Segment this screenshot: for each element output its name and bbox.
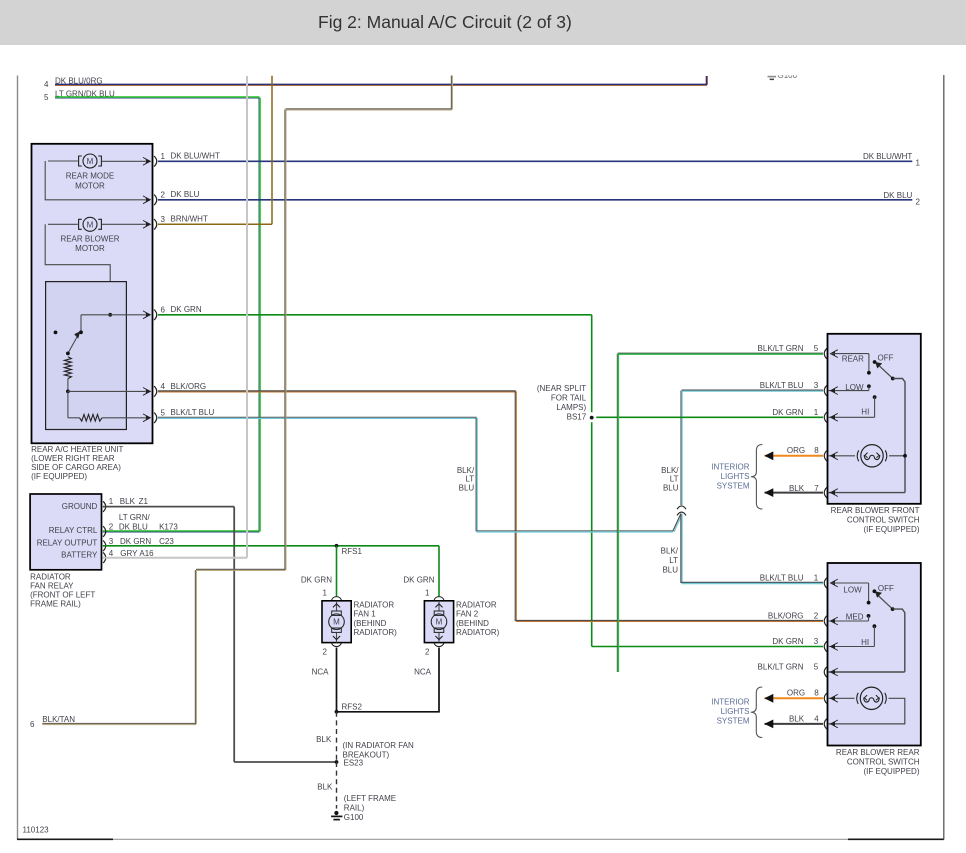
svg-text:8: 8 — [814, 689, 819, 698]
wire ORG rear pin 8 — [764, 694, 823, 703]
node 4 label DK BLU/ORG — [44, 77, 103, 90]
svg-text:K173: K173 — [159, 523, 178, 532]
svg-text:6: 6 — [30, 720, 35, 729]
svg-text:A16: A16 — [139, 549, 154, 558]
svg-text:CONTROL SWITCH: CONTROL SWITCH — [847, 757, 920, 766]
svg-text:BLK/LT GRN: BLK/LT GRN — [758, 663, 804, 672]
svg-text:Z1: Z1 — [139, 497, 149, 506]
svg-text:REAR A/C HEATER UNIT: REAR A/C HEATER UNIT — [31, 445, 123, 454]
svg-text:BLU: BLU — [663, 483, 679, 492]
svg-text:DK BLU: DK BLU — [171, 190, 200, 199]
svg-text:MOTOR: MOTOR — [75, 244, 105, 253]
switch blade with arrow — [66, 331, 80, 355]
svg-text:3: 3 — [814, 381, 819, 390]
rear blower rear control switch box — [828, 563, 921, 746]
label NCA fan 2 — [414, 668, 432, 677]
svg-text:RADIATOR: RADIATOR — [30, 573, 71, 582]
node BS17 — [590, 416, 594, 420]
svg-text:(NEAR SPLIT: (NEAR SPLIT — [537, 384, 586, 393]
svg-text:MED: MED — [846, 612, 864, 621]
wire resistor common to pin 6 — [81, 311, 151, 319]
wire node down to resistor R2 — [67, 391, 69, 417]
drawing number 110123 — [23, 826, 50, 835]
svg-text:LT: LT — [465, 474, 474, 483]
heater pin 6 connector — [154, 305, 202, 320]
svg-text:REAR BLOWER REAR: REAR BLOWER REAR — [836, 748, 920, 757]
svg-text:BLK: BLK — [120, 497, 136, 506]
svg-text:BLK: BLK — [316, 735, 332, 744]
svg-text:DK GRN: DK GRN — [120, 537, 151, 546]
svg-text:2: 2 — [425, 648, 430, 657]
svg-text:(BEHIND: (BEHIND — [456, 619, 489, 628]
radiator fan relay label — [30, 573, 95, 609]
svg-text:SIDE OF CARGO AREA): SIDE OF CARGO AREA) — [31, 463, 121, 472]
wire DK GRN pin 6 to BS17 drop — [158, 315, 592, 647]
rear switch pin 1 connector — [824, 578, 838, 589]
rear switch OFF contact — [873, 584, 895, 593]
border frame right edge — [943, 75, 945, 840]
label in radiator fan breakout — [343, 741, 414, 759]
svg-text:2: 2 — [814, 612, 819, 621]
relay pin 4 connector — [103, 549, 154, 563]
svg-text:ES23: ES23 — [344, 758, 364, 767]
svg-text:BLK/LT BLU: BLK/LT BLU — [760, 574, 804, 583]
svg-text:FOR TAIL: FOR TAIL — [551, 393, 587, 402]
wire DK GRN BS17 to front switch pin 1 — [596, 416, 823, 418]
label NCA fan 1 — [312, 668, 330, 677]
border frame bottom edge — [17, 838, 944, 840]
title bar — [0, 0, 966, 45]
svg-text:DK GRN: DK GRN — [301, 575, 332, 584]
svg-text:2: 2 — [161, 191, 166, 200]
heater pin 2 connector — [154, 190, 200, 205]
front switch pin 5 wire BLK/LT GRN — [617, 353, 823, 672]
svg-text:FRAME RAIL): FRAME RAIL) — [30, 600, 81, 609]
junction node blower feed — [108, 313, 112, 317]
relay pin 2 connector — [103, 513, 178, 537]
front switch OFF contact — [873, 353, 894, 364]
svg-text:REAR MODE: REAR MODE — [66, 172, 114, 181]
svg-text:M: M — [87, 157, 94, 166]
label BS17 near split for tail lamps — [537, 384, 587, 422]
svg-text:1: 1 — [425, 588, 430, 597]
front switch blade — [875, 362, 895, 381]
svg-text:6: 6 — [161, 306, 166, 315]
radiator fan 1 motor — [322, 601, 351, 643]
interior lights system label front — [711, 463, 750, 491]
front switch pin 5 connector — [824, 348, 838, 359]
svg-text:REAR: REAR — [842, 354, 864, 363]
front switch lamp — [828, 445, 907, 467]
svg-text:RELAY OUTPUT: RELAY OUTPUT — [37, 539, 98, 548]
svg-text:4: 4 — [814, 715, 819, 724]
svg-text:BLU: BLU — [459, 483, 475, 492]
svg-text:BLK/TAN: BLK/TAN — [42, 715, 75, 724]
svg-text:FAN RELAY: FAN RELAY — [30, 582, 74, 591]
wire BLK/TAN row 6 to top edge — [42, 76, 452, 725]
svg-text:4: 4 — [161, 382, 166, 391]
svg-text:C23: C23 — [159, 537, 174, 546]
heater pin 1 connector — [154, 152, 220, 167]
svg-text:5: 5 — [814, 344, 819, 353]
rear switch pin 5 label — [758, 663, 819, 672]
label BLK/LT BLU upper at splice — [661, 466, 679, 493]
node RFS2 — [335, 702, 363, 713]
radiator fan 2 pin 2 — [425, 643, 444, 657]
interior lights system brace rear — [751, 687, 763, 738]
wire BLK dashed ES23 to ground — [336, 762, 338, 809]
front switch HI contact — [828, 395, 876, 417]
rear switch pin 2 label — [768, 612, 819, 621]
svg-text:1: 1 — [161, 152, 166, 161]
svg-text:INTERIOR: INTERIOR — [711, 698, 749, 707]
radiator fan 2 label — [456, 600, 500, 637]
front switch pin 5 label — [758, 344, 819, 353]
rear blower front control switch box — [828, 334, 921, 504]
relay pin 3 connector — [103, 537, 174, 551]
node 5 label LT GRN/DK BLU — [44, 89, 115, 102]
wire BLK/LT BLU splice up to front switch pin 3 — [681, 390, 823, 505]
svg-text:BS17: BS17 — [567, 413, 587, 422]
border frame left edge — [17, 76, 19, 840]
radiator fan 2 pin 1 — [425, 588, 444, 600]
svg-text:(LOWER RIGHT REAR: (LOWER RIGHT REAR — [31, 454, 115, 463]
radiator fan 1 pin 2 — [323, 643, 342, 657]
svg-text:RADIATOR: RADIATOR — [354, 600, 395, 609]
rear A/C heater unit label — [31, 445, 123, 481]
svg-text:M: M — [87, 220, 94, 229]
node ES23 — [335, 758, 364, 767]
svg-text:LAMPS): LAMPS) — [556, 403, 586, 412]
rear switch pin 3 label — [772, 637, 818, 646]
svg-text:HI: HI — [861, 407, 869, 416]
svg-text:INTERIOR: INTERIOR — [711, 463, 749, 472]
svg-text:DK GRN: DK GRN — [772, 637, 803, 646]
svg-text:OFF: OFF — [878, 584, 894, 593]
svg-text:RELAY CTRL: RELAY CTRL — [49, 526, 98, 535]
svg-text:BLK/LT GRN: BLK/LT GRN — [758, 344, 804, 353]
svg-text:1: 1 — [109, 497, 114, 506]
heater pin 4 connector — [154, 382, 206, 397]
interior lights system brace front — [751, 445, 763, 510]
svg-text:DK GRN: DK GRN — [171, 305, 202, 314]
svg-text:(IF EQUIPPED): (IF EQUIPPED) — [863, 767, 919, 776]
wire resistor to pin 4 node — [66, 379, 70, 394]
svg-text:ORG: ORG — [787, 689, 805, 698]
svg-text:5: 5 — [161, 409, 166, 418]
svg-text:REAR BLOWER FRONT: REAR BLOWER FRONT — [831, 506, 920, 515]
front pin 7 label — [789, 484, 819, 493]
wire BLK dashed RFS2 to ES23 — [336, 712, 338, 762]
svg-text:1: 1 — [323, 588, 328, 597]
wire LT GRN/DK BLU row 5 to relay pin 2 — [55, 97, 260, 532]
front switch LOW contact — [828, 383, 871, 392]
wire NCA fan 2 to RFS2 — [337, 648, 440, 712]
svg-text:OFF: OFF — [878, 353, 894, 362]
rear switch pin 4 connector — [824, 719, 838, 730]
wire mode motor to pin 1 — [102, 157, 152, 165]
wire DK BLU/WHT pin 1 to right edge — [158, 160, 912, 162]
svg-text:M: M — [436, 618, 443, 627]
svg-text:G100: G100 — [778, 71, 798, 80]
svg-text:3: 3 — [109, 537, 114, 546]
wire splice diagonal — [673, 514, 683, 533]
label DK GRN fan 2 — [403, 575, 434, 584]
rear switch lamp — [828, 687, 905, 724]
svg-text:LOW: LOW — [843, 585, 862, 594]
rear pin 4 label — [789, 715, 819, 724]
svg-text:LT: LT — [670, 474, 679, 483]
svg-text:(LEFT FRAME: (LEFT FRAME — [344, 794, 396, 803]
wire DK GRN to radiator fan 1 — [336, 546, 338, 597]
svg-text:1: 1 — [916, 159, 921, 168]
front switch pin 7 connector — [824, 487, 838, 498]
resistor R1 vertical zigzag — [64, 357, 71, 379]
svg-text:5: 5 — [814, 663, 819, 672]
wire BLK front pin 7 — [764, 488, 823, 497]
rear switch common to pin 5 — [828, 609, 905, 672]
wire BLK/ORG pin 4 to rear switch pin 2 — [158, 391, 823, 622]
rear switch MED contact — [828, 612, 870, 621]
heater pin 5 connector — [154, 408, 214, 423]
svg-text:BLK/: BLK/ — [661, 547, 679, 556]
wire blower motor loop into resistor block — [45, 224, 110, 314]
wire mode motor loop to pin 2 — [45, 161, 151, 204]
ground remnant G100 top — [768, 71, 798, 80]
wire ORG front pin 8 — [764, 451, 823, 460]
heater pin 3 connector — [154, 215, 208, 230]
svg-text:RFS2: RFS2 — [342, 702, 363, 711]
rear mode motor label — [66, 172, 114, 191]
wire BLK rear pin 4 — [764, 720, 823, 729]
svg-text:DK GRN: DK GRN — [772, 408, 803, 417]
svg-text:RADIATOR): RADIATOR) — [456, 628, 500, 637]
rear switch HI contact — [828, 624, 876, 647]
svg-text:RAIL): RAIL) — [344, 803, 365, 812]
svg-text:4: 4 — [109, 549, 114, 558]
svg-text:2: 2 — [323, 648, 328, 657]
rear switch pin 2 connector — [824, 616, 838, 627]
rear switch pin 5 connector — [824, 667, 838, 678]
radiator fan 1 pin 1 — [323, 588, 342, 600]
rear switch LOW position — [830, 583, 870, 604]
svg-text:3: 3 — [814, 637, 819, 646]
svg-text:SYSTEM: SYSTEM — [717, 717, 750, 726]
svg-text:BLK/LT BLU: BLK/LT BLU — [760, 381, 804, 390]
blower resistor block box — [46, 282, 127, 430]
svg-text:GRY: GRY — [120, 549, 138, 558]
splice hop symbol — [677, 506, 686, 516]
svg-text:BLK: BLK — [789, 484, 805, 493]
svg-text:FAN 1: FAN 1 — [354, 610, 377, 619]
svg-text:3: 3 — [161, 215, 166, 224]
wire 1 right end label — [863, 152, 921, 167]
rear blower front control switch label — [831, 506, 920, 534]
label BLK/LT BLU at heater drop — [457, 466, 475, 493]
interior lights system label rear — [711, 698, 750, 726]
wire DK BLU/ORG row 4 — [55, 76, 708, 85]
wire node to pin 4 — [68, 388, 151, 396]
svg-text:LIGHTS: LIGHTS — [721, 707, 750, 716]
svg-text:(IN RADIATOR FAN: (IN RADIATOR FAN — [343, 741, 414, 750]
svg-text:(IF EQUIPPED): (IF EQUIPPED) — [863, 525, 919, 534]
svg-text:REAR BLOWER: REAR BLOWER — [60, 234, 119, 243]
radiator fan 1 label — [354, 600, 398, 637]
rear blower motor M2 — [48, 217, 101, 231]
wire BLK/LT BLU pin 5 to splice — [158, 417, 673, 532]
svg-text:BLK/ORG: BLK/ORG — [768, 612, 804, 621]
svg-text:LT: LT — [669, 556, 678, 565]
node RFS1 — [335, 544, 363, 556]
switch contact open throw — [54, 331, 58, 335]
svg-text:BLK: BLK — [789, 715, 805, 724]
svg-text:GROUND: GROUND — [62, 502, 98, 511]
svg-text:MOTOR: MOTOR — [75, 181, 105, 190]
rear switch pin 8 connector — [824, 693, 838, 704]
wire BRN/WHT pin 3 up to top edge — [158, 76, 272, 225]
svg-text:LIGHTS: LIGHTS — [721, 472, 750, 481]
rear blower rear control switch label — [836, 748, 920, 776]
svg-text:LT GRN/: LT GRN/ — [119, 513, 151, 522]
svg-text:110123: 110123 — [23, 826, 50, 835]
svg-text:ORG: ORG — [787, 446, 805, 455]
svg-text:HI: HI — [861, 638, 869, 647]
front switch common to pin 7 — [828, 379, 905, 493]
svg-text:2: 2 — [109, 523, 114, 532]
label left frame rail — [344, 794, 396, 812]
svg-text:4: 4 — [44, 80, 49, 89]
wire DK GRN C23 relay output to fans — [103, 545, 439, 547]
label BLK/LT BLU lower — [661, 547, 679, 575]
wire NCA fan 1 to RFS2 — [336, 648, 338, 712]
svg-text:BATTERY: BATTERY — [61, 551, 98, 560]
relay terminal labels — [37, 502, 98, 560]
wire 2 right end label — [883, 191, 920, 206]
ground G100 — [331, 811, 364, 822]
svg-text:1: 1 — [814, 574, 819, 583]
rear A/C heater unit box — [32, 144, 153, 444]
label BLK above ES23 — [316, 735, 332, 744]
svg-text:(BEHIND: (BEHIND — [354, 619, 387, 628]
svg-text:BLU: BLU — [662, 566, 678, 575]
resistor R2 horizontal zigzag to pin 5 — [68, 414, 151, 422]
svg-text:DK BLU: DK BLU — [883, 191, 912, 200]
wire DK BLU pin 2 to right edge — [158, 199, 912, 201]
radiator fan relay box — [30, 494, 101, 570]
front pin 8 label — [787, 446, 819, 455]
svg-text:SYSTEM: SYSTEM — [717, 482, 750, 491]
wire GRY A16 battery feed to top edge — [103, 76, 247, 558]
svg-text:BLK: BLK — [317, 783, 333, 792]
front switch pin 1 connector — [824, 412, 838, 423]
svg-text:DK BLU/WHT: DK BLU/WHT — [171, 152, 220, 161]
wire DK GRN to radiator fan 2 — [438, 546, 440, 597]
svg-text:DK BLU: DK BLU — [119, 523, 148, 532]
rear switch pin 3 connector — [824, 641, 838, 652]
front switch pin 1 label — [772, 408, 818, 417]
wire BLK Z1 relay ground to ES23 — [103, 507, 337, 762]
rear switch blade — [875, 591, 895, 611]
svg-text:7: 7 — [814, 484, 819, 493]
label DK GRN fan 1 — [301, 575, 332, 584]
svg-text:2: 2 — [916, 197, 921, 206]
svg-text:NCA: NCA — [414, 668, 432, 677]
svg-text:(FRONT OF LEFT: (FRONT OF LEFT — [30, 591, 95, 600]
wire BLK/LT BLU splice down to rear switch pin 1 — [681, 514, 823, 584]
radiator fan 2 motor — [424, 601, 453, 643]
svg-text:NCA: NCA — [312, 668, 330, 677]
svg-text:RADIATOR: RADIATOR — [456, 600, 497, 609]
svg-text:1: 1 — [814, 408, 819, 417]
svg-text:BLK/ORG: BLK/ORG — [171, 382, 207, 391]
svg-text:BLK/LT BLU: BLK/LT BLU — [171, 408, 215, 417]
front switch pin 3 connector — [824, 385, 838, 396]
relay pin 1 connector — [103, 497, 148, 512]
rear mode motor M1 — [48, 154, 101, 168]
svg-text:CONTROL SWITCH: CONTROL SWITCH — [847, 516, 920, 525]
svg-text:M: M — [333, 618, 340, 627]
label BLK above ground — [317, 783, 333, 792]
svg-text:DK GRN: DK GRN — [403, 575, 434, 584]
svg-text:8: 8 — [814, 446, 819, 455]
rear blower motor label — [60, 234, 119, 253]
front switch pin 8 connector — [824, 451, 838, 462]
front switch REAR position — [830, 354, 871, 375]
wire DK GRN to rear switch pin 3 — [592, 646, 823, 648]
node 6 label BLK/TAN — [30, 715, 75, 729]
svg-text:(IF EQUIPPED): (IF EQUIPPED) — [31, 472, 87, 481]
rear switch pin 1 label — [760, 574, 819, 583]
svg-text:RADIATOR): RADIATOR) — [354, 628, 398, 637]
svg-text:FAN 2: FAN 2 — [456, 610, 479, 619]
svg-text:DK BLU/WHT: DK BLU/WHT — [863, 152, 912, 161]
front switch pin 3 label — [760, 381, 819, 390]
wire common down to switch contact — [79, 315, 83, 334]
svg-text:G100: G100 — [344, 813, 364, 822]
wire blower motor to pin 3 — [102, 220, 152, 228]
rear pin 8 label — [787, 689, 819, 698]
svg-text:RFS1: RFS1 — [342, 547, 363, 556]
svg-text:5: 5 — [44, 93, 49, 102]
svg-text:BRN/WHT: BRN/WHT — [171, 215, 208, 224]
